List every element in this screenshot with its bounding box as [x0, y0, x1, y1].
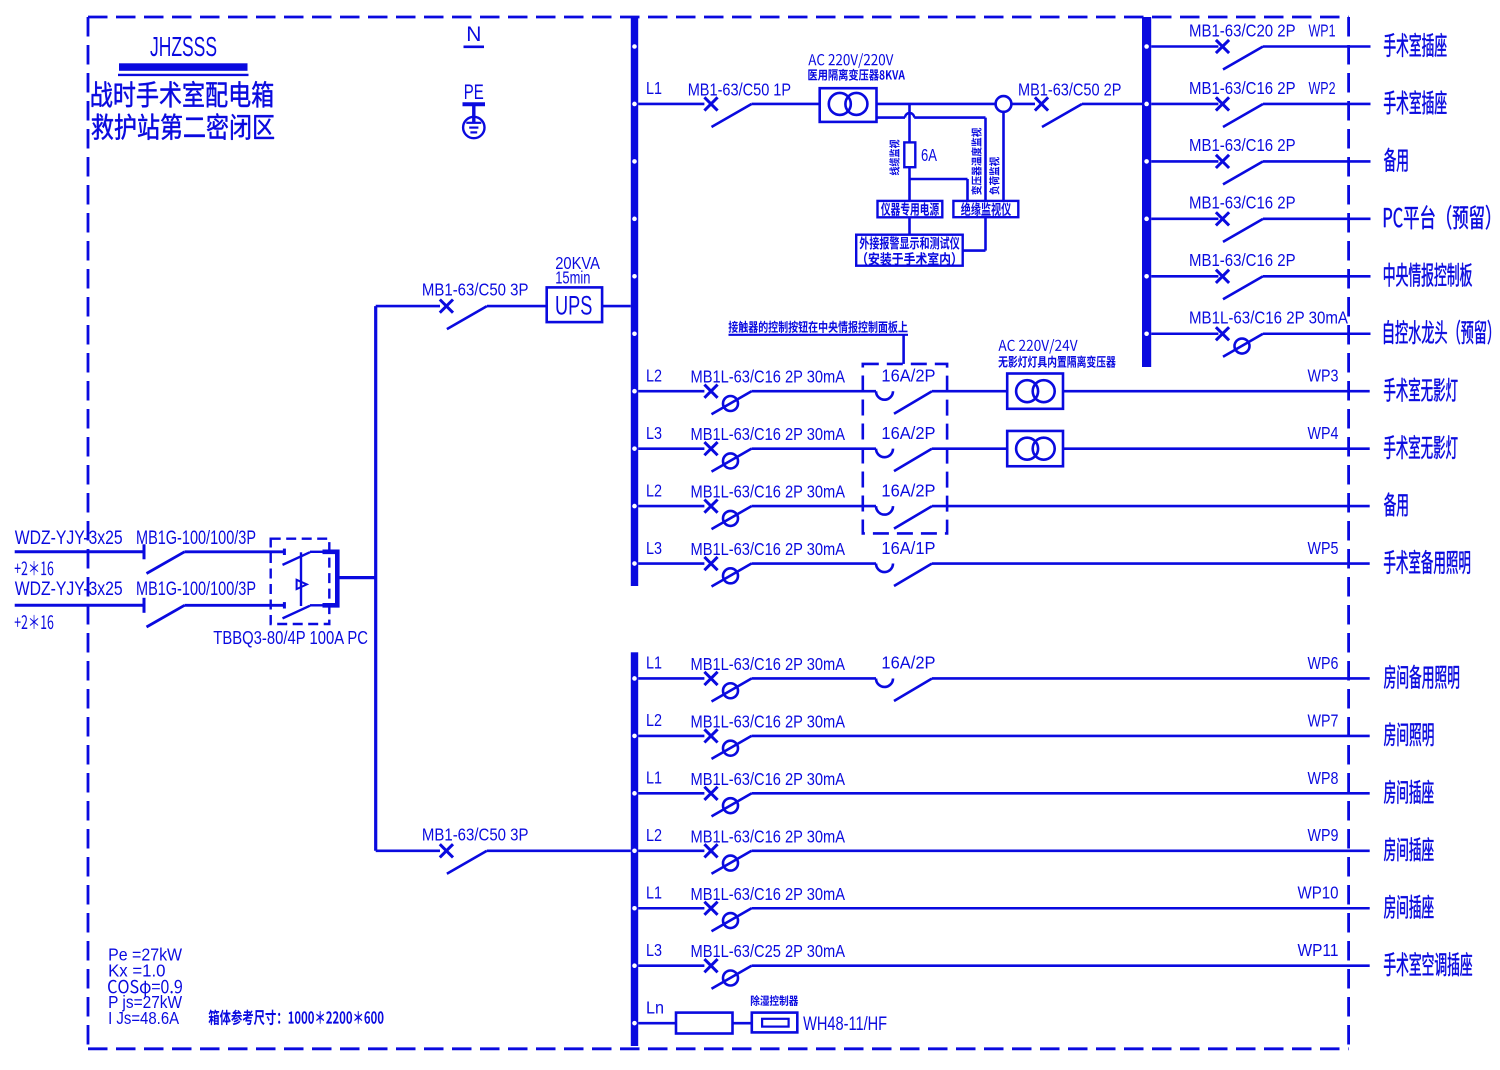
svg-text:16A/2P: 16A/2P: [881, 365, 935, 385]
svg-text:MB1L-63/C16 2P 30mA: MB1L-63/C16 2P 30mA: [691, 654, 846, 674]
svg-text:MB1L-63/C16 2P 30mA: MB1L-63/C16 2P 30mA: [691, 539, 846, 559]
svg-text:L2: L2: [646, 825, 662, 845]
svg-text:MB1-63/C20 2P: MB1-63/C20 2P: [1189, 20, 1296, 40]
svg-text:MB1L-63/C16 2P 30mA: MB1L-63/C16 2P 30mA: [691, 424, 846, 444]
svg-text:MB1-63/C50 3P: MB1-63/C50 3P: [422, 825, 529, 845]
svg-text:L1: L1: [646, 653, 662, 673]
svg-text:WH48-11/HF: WH48-11/HF: [803, 1014, 887, 1035]
svg-text:MB1-63/C16 2P: MB1-63/C16 2P: [1189, 193, 1296, 213]
svg-text:L2: L2: [646, 710, 662, 730]
svg-text:MB1L-63/C16 2P 30mA: MB1L-63/C16 2P 30mA: [691, 769, 846, 789]
svg-text:MB1G-100/100/3P: MB1G-100/100/3P: [136, 528, 256, 549]
svg-text:Kx =1.0: Kx =1.0: [108, 961, 166, 981]
svg-text:UPS: UPS: [555, 290, 592, 320]
svg-text:TBBQ3-80/4P 100A PC: TBBQ3-80/4P 100A PC: [213, 627, 368, 648]
svg-text:MB1G-100/100/3P: MB1G-100/100/3P: [136, 579, 256, 600]
svg-text:WP4: WP4: [1308, 423, 1339, 443]
svg-text:JHZSSS: JHZSSS: [150, 31, 217, 62]
svg-text:MB1-63/C16 2P: MB1-63/C16 2P: [1189, 78, 1296, 98]
svg-text:PE: PE: [464, 81, 484, 104]
svg-text:L2: L2: [646, 365, 662, 385]
svg-text:MB1L-63/C16 2P 30mA: MB1L-63/C16 2P 30mA: [691, 367, 846, 387]
svg-text:I Js=48.6A: I Js=48.6A: [108, 1008, 179, 1028]
svg-text:WP1: WP1: [1309, 20, 1336, 40]
svg-text:MB1-63/C16 2P: MB1-63/C16 2P: [1189, 135, 1296, 155]
svg-text:WDZ-YJY-3x25: WDZ-YJY-3x25: [15, 528, 123, 549]
svg-text:WP6: WP6: [1308, 653, 1339, 673]
svg-text:L3: L3: [646, 538, 662, 558]
svg-text:16A/2P: 16A/2P: [881, 653, 935, 673]
svg-text:16A/2P: 16A/2P: [881, 423, 935, 443]
svg-text:WP2: WP2: [1309, 78, 1336, 98]
svg-text:16A/2P: 16A/2P: [881, 480, 935, 500]
svg-text:16A/1P: 16A/1P: [881, 538, 935, 558]
svg-text:MB1-63/C50 3P: MB1-63/C50 3P: [422, 280, 529, 300]
svg-text:WP8: WP8: [1308, 768, 1339, 788]
svg-text:Ln: Ln: [646, 998, 664, 1018]
svg-text:WP7: WP7: [1308, 710, 1339, 730]
svg-text:MB1L-63/C16 2P 30mA: MB1L-63/C16 2P 30mA: [691, 884, 846, 904]
svg-text:MB1-63/C16 2P: MB1-63/C16 2P: [1189, 250, 1296, 270]
svg-text:WP5: WP5: [1308, 538, 1339, 558]
svg-text:L2: L2: [646, 480, 662, 500]
svg-text:N: N: [466, 23, 481, 46]
svg-text:MB1L-63/C16 2P 30mA: MB1L-63/C16 2P 30mA: [691, 826, 846, 846]
svg-text:15min: 15min: [555, 268, 590, 288]
svg-text:WP9: WP9: [1308, 825, 1339, 845]
svg-text:WDZ-YJY-3x25: WDZ-YJY-3x25: [15, 579, 123, 600]
svg-text:MB1-63/C50 1P: MB1-63/C50 1P: [688, 79, 791, 99]
svg-text:WP3: WP3: [1308, 366, 1339, 386]
svg-text:L1: L1: [646, 768, 662, 788]
svg-text:L3: L3: [646, 940, 662, 960]
svg-text:WP10: WP10: [1298, 883, 1339, 903]
svg-text:MB1-63/C50 2P: MB1-63/C50 2P: [1018, 79, 1121, 99]
svg-text:MB1L-63/C16 2P 30mA: MB1L-63/C16 2P 30mA: [1189, 308, 1348, 328]
svg-text:MB1L-63/C16 2P 30mA: MB1L-63/C16 2P 30mA: [691, 711, 846, 731]
svg-text:L1: L1: [646, 882, 662, 902]
svg-text:L1: L1: [646, 78, 662, 98]
svg-text:WP11: WP11: [1298, 940, 1339, 960]
svg-text:MB1L-63/C25 2P 30mA: MB1L-63/C25 2P 30mA: [691, 941, 846, 961]
svg-text:L3: L3: [646, 423, 662, 443]
svg-text:MB1L-63/C16 2P 30mA: MB1L-63/C16 2P 30mA: [691, 482, 846, 502]
svg-text:6A: 6A: [921, 145, 937, 165]
